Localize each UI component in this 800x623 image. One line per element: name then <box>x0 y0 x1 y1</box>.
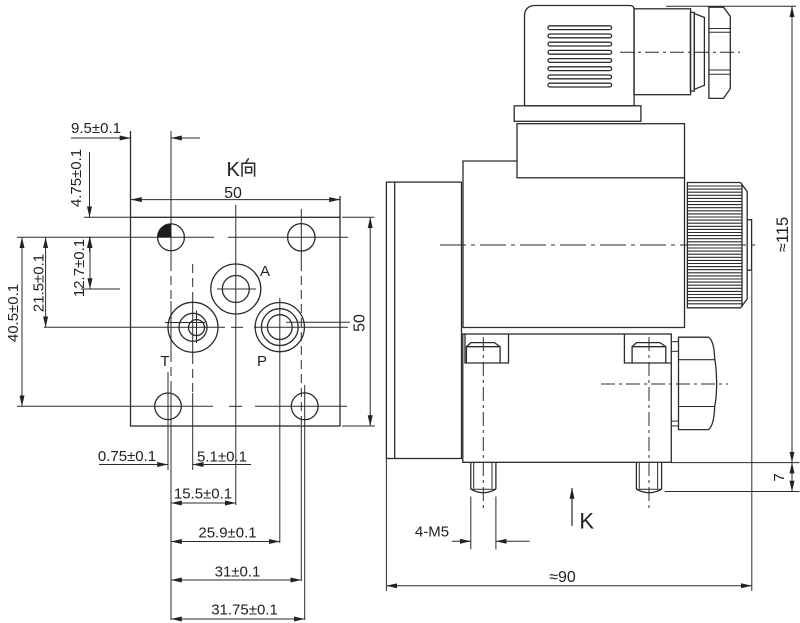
nut axis center line <box>601 383 728 385</box>
column line x=304.7 bottom-right hole <box>304 385 306 620</box>
dimension ≈90 <box>386 585 751 587</box>
extension lines plate right <box>342 217 375 426</box>
svg-text:50: 50 <box>352 314 369 332</box>
dimension 50 top <box>131 199 340 201</box>
coil axis center line <box>440 244 760 246</box>
dimension 4-M5 <box>452 540 530 542</box>
valve body <box>463 334 672 462</box>
extension line right <box>751 271 753 591</box>
extension line gland top <box>666 5 796 7</box>
dimension 50 right <box>369 217 371 426</box>
center line A hole <box>217 288 256 290</box>
right bolt head <box>632 343 666 363</box>
dimension 9.5±0.1 <box>71 137 200 139</box>
column line T port <box>192 264 194 470</box>
svg-text:4-M5: 4-M5 <box>415 524 449 541</box>
top-right mounting hole <box>288 224 315 251</box>
coil body <box>463 161 685 328</box>
svg-text:K: K <box>579 509 594 534</box>
svg-text:25.9±0.1: 25.9±0.1 <box>198 525 256 542</box>
extension line 12.7 <box>81 288 120 290</box>
dimension 40.5±0.1 <box>21 237 23 406</box>
extension line plate top left <box>84 216 131 218</box>
svg-text:A: A <box>260 263 270 280</box>
svg-text:≈115: ≈115 <box>774 217 792 252</box>
dimension ≈115 <box>791 6 793 462</box>
left end block <box>386 182 461 458</box>
svg-text:T: T <box>160 353 169 370</box>
svg-text:5.1±0.1: 5.1±0.1 <box>197 449 247 466</box>
extension line body bottom <box>671 462 799 464</box>
svg-text:31.75±0.1: 31.75±0.1 <box>211 602 278 619</box>
nut tabs <box>671 342 678 426</box>
hex nut <box>679 337 717 429</box>
knurled knob <box>687 183 747 308</box>
port P hole <box>255 303 304 352</box>
svg-text:9.5±0.1: 9.5±0.1 <box>71 120 121 137</box>
svg-text:4.75±0.1: 4.75±0.1 <box>68 149 85 207</box>
dimension 4.75±0.1 <box>89 152 91 252</box>
svg-text:P: P <box>257 353 267 370</box>
center line T P holes <box>44 322 350 327</box>
svg-text:40.5±0.1: 40.5±0.1 <box>5 284 22 342</box>
left bolt axis <box>482 337 484 508</box>
svg-text:7: 7 <box>771 473 788 481</box>
filled quadrant of top-left hole <box>158 224 171 237</box>
view title glyph 向 <box>242 158 255 177</box>
gland ring 1 <box>690 12 694 91</box>
dimension 7 <box>791 463 793 492</box>
column line x=171 top-left hole <box>170 131 172 620</box>
svg-text:21.5±0.1: 21.5±0.1 <box>31 254 48 312</box>
dimension 15.5±0.1 <box>171 502 236 504</box>
knob knurling ribs <box>687 186 742 304</box>
connector base plate <box>514 106 641 122</box>
upper block <box>517 124 685 178</box>
svg-text:15.5±0.1: 15.5±0.1 <box>174 486 232 503</box>
svg-text:31±0.1: 31±0.1 <box>215 564 261 581</box>
center line top holes <box>17 236 348 238</box>
svg-text:50: 50 <box>224 185 242 202</box>
dimension 31±0.1 <box>171 579 301 581</box>
connector housing <box>525 6 635 106</box>
extension line left block <box>385 459 387 592</box>
4-M5 extension lines <box>471 497 496 550</box>
dimension 25.9±0.1 <box>171 541 280 543</box>
mounting plate outline <box>131 217 341 426</box>
dimension 31.75±0.1 <box>171 618 305 620</box>
svg-text:≈90: ≈90 <box>549 569 576 586</box>
column line x=301.3 top-right hole <box>300 209 302 581</box>
bottom-right mounting hole <box>291 393 318 420</box>
svg-text:12.7±0.1: 12.7±0.1 <box>71 239 88 297</box>
gland ring 2 taper <box>694 14 704 90</box>
column line A port <box>235 205 237 505</box>
port T hole <box>168 302 218 352</box>
view direction arrow K <box>571 488 573 526</box>
column line x=168 bottom-left hole <box>167 372 169 470</box>
connector vent slots <box>548 26 612 87</box>
dimension 21.5±0.1 <box>45 237 47 327</box>
dimension 5.1±0.1 <box>193 464 251 466</box>
cable gland body <box>634 9 691 95</box>
top-left mounting hole <box>158 224 185 251</box>
port A hole <box>211 264 261 314</box>
right stud <box>636 463 661 493</box>
dimension 12.7±0.1 <box>89 237 91 289</box>
svg-text:K: K <box>227 159 241 181</box>
right bolt recess <box>624 334 671 363</box>
svg-text:0.75±0.1: 0.75±0.1 <box>98 448 156 465</box>
left bolt recess <box>465 334 509 363</box>
left stud <box>471 463 496 493</box>
center line bottom holes <box>17 405 347 407</box>
tab behind knob <box>747 220 751 271</box>
left bolt head <box>466 343 500 363</box>
column line P port <box>279 298 281 543</box>
gland nut <box>709 7 730 98</box>
bottom-left mounting hole <box>155 393 182 420</box>
plate right edge extension <box>339 196 341 217</box>
extension line stud bottom <box>665 491 800 493</box>
right bolt axis <box>648 337 650 508</box>
connector axis center line <box>620 51 740 53</box>
dimension 0.75±0.1 <box>99 464 168 466</box>
plate left edge extension <box>130 131 132 217</box>
